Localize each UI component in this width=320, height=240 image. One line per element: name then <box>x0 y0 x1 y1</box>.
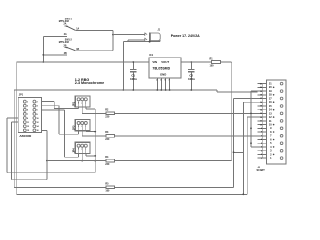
connector J1 barrel body <box>150 33 160 41</box>
switch SW1-1 pole stub <box>65 25 67 27</box>
junction dot pin16 vertical on bottom line <box>242 193 244 195</box>
svg-text:20: 20 <box>269 86 272 89</box>
jumper JP4 pin circles <box>77 144 87 147</box>
wire JP1 left stub row6 <box>11 121 18 123</box>
wire monochrome bus bottom line <box>7 172 95 174</box>
connector J2 SCART box <box>266 80 286 164</box>
junction dot pole vertical on VCC rail <box>42 61 44 63</box>
connector J2 pin number column line <box>261 84 263 159</box>
wire ABC800 bottom stub to R4 net <box>42 130 47 160</box>
svg-text:18: 18 <box>269 94 272 97</box>
jumper JP4 pin numbers <box>78 149 86 151</box>
wire VCC rail to IC1 VIN <box>17 61 149 63</box>
svg-text:Power 17. 24V/2A: Power 17. 24V/2A <box>171 34 200 38</box>
jumper JP4 middle pin wire to R4 line <box>81 153 83 160</box>
wire R5 right to vertical <box>115 186 234 188</box>
capacitor C2 wire <box>190 62 192 90</box>
svg-text:220: 220 <box>105 163 110 166</box>
wire R4 line right segment to R1 vertical <box>114 160 231 162</box>
svg-text:3: 3 <box>261 150 262 152</box>
svg-text:5: 5 <box>261 143 262 145</box>
svg-text:VIN: VIN <box>152 60 157 64</box>
svg-text:R1: R1 <box>210 57 214 60</box>
jumper JP2 box <box>75 96 90 107</box>
svg-text:220: 220 <box>105 138 110 141</box>
wire W3 ABC800 to JP4 pin1 <box>42 110 79 157</box>
switch SW1-2 pivot dot <box>66 47 68 49</box>
svg-text:21: 21 <box>260 83 262 85</box>
svg-text:3: 3 <box>27 106 28 108</box>
connector JP1 ABC800 box <box>18 97 41 132</box>
svg-text:6: 6 <box>165 80 166 82</box>
connector J1 sleeve wire <box>123 40 160 42</box>
svg-text:15: 15 <box>27 130 29 132</box>
svg-text:2A: 2A <box>64 22 67 25</box>
svg-text:10: 10 <box>269 124 272 127</box>
svg-text:6: 6 <box>270 138 272 141</box>
svg-text:3: 3 <box>270 150 272 153</box>
jumper JP3 right pin wire to mono bus <box>86 130 95 133</box>
jumper JP3 middle pin wire to R3 <box>82 131 106 136</box>
svg-text:3: 3 <box>160 80 161 82</box>
svg-text:16: 16 <box>260 102 262 104</box>
junction dot C2 top <box>190 61 192 63</box>
jumper JP3 pin numbers <box>78 126 86 128</box>
junction dot R4 line on mono bus <box>94 160 96 162</box>
svg-text:JP1: JP1 <box>19 94 24 97</box>
svg-text:100n: 100n <box>130 77 137 81</box>
svg-text:7: 7 <box>270 135 272 138</box>
svg-text:VOUT: VOUT <box>161 60 169 64</box>
junction dot pin16 branch <box>233 151 235 153</box>
svg-text:17: 17 <box>269 97 272 100</box>
wire ground bus <box>14 89 217 91</box>
junction dot pin19 bus at pin13 <box>250 113 252 115</box>
svg-text:2: 2 <box>270 153 272 156</box>
capacitor C1 wire <box>132 62 134 90</box>
svg-text:11: 11 <box>269 120 272 123</box>
capacitor C1 plates <box>130 70 137 72</box>
connector J1 tip contact <box>145 33 147 37</box>
svg-text:1: 1 <box>27 102 28 104</box>
svg-text:7: 7 <box>27 114 28 116</box>
wire sleeve down to ground bus <box>122 42 124 90</box>
svg-text:12: 12 <box>269 116 272 119</box>
junction dot sleeve on ground bus <box>122 89 124 91</box>
wire R3 to SCART pin 7 <box>114 135 257 137</box>
svg-text:13: 13 <box>269 112 272 115</box>
wire bottom line toward SCART pin 12 <box>17 193 248 195</box>
jumper JP4 right pin wire to mono bus <box>86 153 95 156</box>
svg-text:17: 17 <box>260 98 262 100</box>
svg-text:16: 16 <box>269 101 272 104</box>
wire ground bottom line to R5 <box>14 186 106 188</box>
svg-text:4: 4 <box>270 146 272 149</box>
svg-text:1: 1 <box>261 158 262 160</box>
junction dot sleeve <box>149 41 151 43</box>
svg-text:R2: R2 <box>105 109 109 112</box>
resistor R1 body <box>211 61 220 64</box>
jumper JP2 pin stubs <box>79 101 86 107</box>
connector JP1 pin circles right column <box>33 100 36 132</box>
wire R5 net vertical to SCART pin 17 <box>234 99 258 188</box>
svg-text:16: 16 <box>37 130 39 132</box>
svg-text:J1: J1 <box>158 30 161 32</box>
wire R1 net vertical <box>231 62 233 161</box>
connector JP1 pin numbers <box>27 102 40 133</box>
svg-text:19: 19 <box>269 90 272 93</box>
wire ground left vertical <box>13 90 15 187</box>
IC1 ground pins <box>157 78 169 90</box>
svg-text:11: 11 <box>27 122 29 124</box>
svg-text:2: 2 <box>156 80 157 82</box>
capacitor C2 plates <box>188 70 195 72</box>
svg-text:78L05SMD: 78L05SMD <box>152 67 170 71</box>
switch SW1-1 label <box>59 18 73 23</box>
junction dot JP4 middle on R4 line <box>81 160 83 162</box>
svg-text:2: 2 <box>261 154 262 156</box>
svg-text:6: 6 <box>37 110 38 112</box>
connector J2 inside pin names <box>269 83 272 161</box>
wire switch outputs vertical <box>112 30 114 50</box>
svg-text:15: 15 <box>269 105 272 108</box>
wire vertical up to SCART pin 12 <box>246 117 248 194</box>
svg-text:21: 21 <box>269 83 272 86</box>
wire SCART pin 12 stub connection <box>247 116 257 118</box>
junction dot C1 top <box>132 61 134 63</box>
wire 2B bottom stub <box>43 54 67 56</box>
svg-text:2: 2 <box>37 102 38 104</box>
connector J1 ring contact <box>145 38 147 42</box>
capacitor C1 labels <box>130 74 137 81</box>
svg-text:100: 100 <box>210 64 215 67</box>
svg-text:100: 100 <box>105 190 110 193</box>
jumper JP3 pin circles <box>77 122 87 125</box>
jumper JP3 pin stubs <box>79 125 86 131</box>
svg-text:GND: GND <box>160 73 166 77</box>
svg-text:10: 10 <box>37 118 39 120</box>
switch SW1-2 pole stub <box>65 46 67 48</box>
switch SW1-2 arm <box>67 47 76 50</box>
connector J2 contacts odd pins <box>280 82 283 159</box>
IC1 voltage regulator box <box>149 58 181 78</box>
jumper JP3 box <box>75 120 90 131</box>
svg-text:2A: 2A <box>64 33 67 36</box>
jumper JP4 pin stubs <box>79 147 86 153</box>
svg-text:220: 220 <box>105 116 110 119</box>
junction dot pin19 bus at pin5 <box>250 142 252 144</box>
svg-text:13: 13 <box>260 113 262 115</box>
svg-text:8: 8 <box>270 131 272 134</box>
svg-text:19: 19 <box>260 91 262 93</box>
wire pin16 vertical <box>234 102 258 194</box>
svg-text:15: 15 <box>260 106 262 108</box>
svg-text:6: 6 <box>261 139 262 141</box>
wire VCC rail left vertical <box>16 62 18 194</box>
wire JP1 left vertical x11.3 <box>10 122 12 180</box>
svg-text:R5: R5 <box>105 183 109 186</box>
svg-text:IC1: IC1 <box>149 54 153 57</box>
svg-text:MTS-202: MTS-202 <box>59 41 70 44</box>
junction dot JP3 right on mono bus <box>94 131 96 133</box>
svg-text:9: 9 <box>27 118 28 120</box>
svg-text:8: 8 <box>261 132 262 134</box>
svg-text:12: 12 <box>37 122 39 124</box>
junction dot pin19 bus at pin9 <box>250 127 252 129</box>
svg-text:14: 14 <box>37 125 40 128</box>
connector J2 pin stubs <box>257 84 266 159</box>
wire monochrome bus vertical <box>94 109 96 173</box>
wire R1 to vertical <box>220 61 231 63</box>
connector JP1 pin circles left column <box>23 100 26 132</box>
wire JP1 left vertical x7 <box>6 118 8 173</box>
svg-text:5: 5 <box>27 110 28 112</box>
junction dot JP4 right on mono bus <box>94 155 96 157</box>
connector J2 outside pin numbers <box>260 83 263 160</box>
wire switch poles vertical <box>42 36 44 62</box>
jumper JP2 middle pin wire to R2 <box>82 107 106 113</box>
jumper JP4 box <box>75 142 90 153</box>
resistor R2 body <box>106 112 115 115</box>
wire W2 ABC800 to JP3 pin1 <box>42 106 79 135</box>
svg-text:7: 7 <box>261 136 262 138</box>
svg-text:8: 8 <box>37 114 38 116</box>
resistor R3 body <box>106 135 115 138</box>
svg-text:100n: 100n <box>188 77 195 81</box>
resistor R5 body <box>106 186 115 189</box>
jumper JP2 right pin wire to mono bus <box>86 107 95 109</box>
wire JP1 left stub row5 <box>7 117 18 119</box>
wire 2A bottom stub <box>43 35 67 37</box>
junction dot C2 bottom <box>190 89 192 91</box>
junction dot 2B stub on pole vertical <box>42 54 44 56</box>
switch SW1-1 arm <box>67 26 76 30</box>
wire R4 line left segment <box>47 160 106 162</box>
junction dot branch x46.9 on R4 line <box>46 160 48 162</box>
jumper JP2 pin numbers <box>78 102 86 104</box>
junction dot switch output to jack tip <box>112 34 114 36</box>
connector J1 body bar <box>149 33 151 42</box>
svg-text:SCART: SCART <box>257 169 266 172</box>
svg-text:11: 11 <box>260 121 262 123</box>
connector J2 contacts even pins <box>273 87 275 156</box>
resistor R4 body <box>106 159 115 162</box>
wire ground bus jog to SCART pin 19 <box>217 90 257 92</box>
IC1 ground pin junction dots <box>156 89 170 91</box>
svg-text:12: 12 <box>260 117 262 119</box>
svg-text:4: 4 <box>37 105 39 108</box>
wire 1B to right vertical <box>75 50 113 52</box>
svg-text:14: 14 <box>269 109 272 112</box>
IC1 pin numbers <box>156 80 169 82</box>
svg-text:10: 10 <box>260 124 262 126</box>
wire R2 to SCART pin 13 <box>114 112 257 114</box>
svg-text:1: 1 <box>270 157 272 160</box>
jumper JP2 pin circles <box>77 98 87 101</box>
wire to jack tip <box>113 34 145 36</box>
connector J1 ring wire <box>128 40 145 42</box>
wire stub row6 bottom line <box>11 161 47 180</box>
svg-text:7: 7 <box>169 80 170 82</box>
wire VOUT to R1 <box>181 61 212 63</box>
wire 1A to right vertical <box>75 29 113 31</box>
capacitor C2 labels <box>188 74 195 81</box>
svg-text:5: 5 <box>270 142 272 145</box>
svg-text:2-3 Monochrome: 2-3 Monochrome <box>75 81 105 85</box>
svg-text:18: 18 <box>260 95 262 97</box>
svg-text:R4: R4 <box>105 156 109 159</box>
svg-text:9: 9 <box>261 128 262 130</box>
junction dot C1 bottom <box>132 89 134 91</box>
switch SW1-1 pivot dot <box>66 26 68 28</box>
wire pin19 bus vertical <box>251 91 257 147</box>
svg-text:20: 20 <box>260 87 262 89</box>
switch SW1-2 label <box>59 40 73 45</box>
wire W1 ABC800 to JP2 pin1 <box>42 102 79 109</box>
svg-text:R3: R3 <box>105 131 109 134</box>
svg-text:9: 9 <box>270 127 272 130</box>
svg-text:13: 13 <box>27 126 29 128</box>
svg-text:ABC800: ABC800 <box>19 134 31 138</box>
